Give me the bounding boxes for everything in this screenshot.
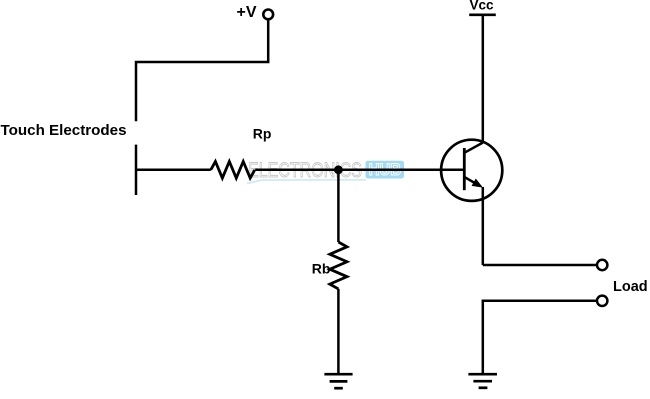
svg-text:Rb: Rb [312, 261, 331, 277]
svg-text:Load: Load [613, 279, 648, 295]
svg-text:Touch Electrodes: Touch Electrodes [1, 123, 127, 139]
svg-text:+V: +V [237, 4, 257, 21]
svg-text:Vcc: Vcc [470, 0, 495, 12]
svg-text:Rp: Rp [253, 126, 272, 142]
